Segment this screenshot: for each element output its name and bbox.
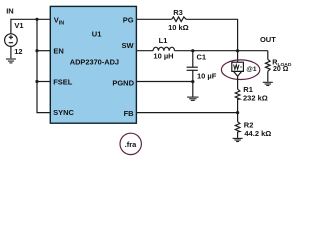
svg-text:SW: SW xyxy=(122,41,135,50)
wire: FSEL pin stub xyxy=(37,81,50,83)
node: bus-FSEL junction xyxy=(35,80,38,83)
svg-text:FB: FB xyxy=(124,109,135,118)
resistor R3 zigzag xyxy=(172,17,187,22)
capacitor C1 (10 uF) top lead xyxy=(192,51,194,67)
wire: RLOAD to ground xyxy=(267,71,269,81)
svg-text:@1: @1 xyxy=(246,66,256,73)
svg-text:20 Ω: 20 Ω xyxy=(273,66,289,73)
svg-text:44.2 kΩ: 44.2 kΩ xyxy=(244,129,271,138)
wire: R2 to ground xyxy=(237,132,239,138)
svg-text:EN: EN xyxy=(53,47,63,56)
svg-text:R2: R2 xyxy=(244,120,254,129)
resistor RLOAD (20 Ohm) zigzag xyxy=(266,59,271,71)
wire: R3 to OUT node xyxy=(186,19,238,50)
node: OUT junction xyxy=(236,49,239,52)
ground: under C1 xyxy=(187,97,198,100)
ground: under R2 xyxy=(233,138,243,141)
svg-text:L1: L1 xyxy=(159,36,168,45)
wire: FB pin to junction xyxy=(136,112,237,114)
wire: OUT node down to probe xyxy=(237,51,239,63)
svg-text:PG: PG xyxy=(123,15,134,24)
svg-text:10 µH: 10 µH xyxy=(153,52,173,61)
capacitor C1 plates xyxy=(187,66,198,68)
probe .fra red circle xyxy=(120,133,141,154)
svg-text:SYNC: SYNC xyxy=(53,108,74,117)
resistor R1 (232 kOhm) zigzag xyxy=(235,89,240,112)
node: PGND-C1 junction xyxy=(191,80,194,83)
wire: V1 top to VIN pin xyxy=(11,19,50,33)
wire: probe to R1 xyxy=(237,76,239,89)
probe @1 red ellipse xyxy=(221,60,259,80)
svg-text:ADP2370-ADJ: ADP2370-ADJ xyxy=(70,57,119,66)
ground: under V1 xyxy=(6,59,16,63)
probe @1 body xyxy=(232,62,244,76)
svg-text:232 kΩ: 232 kΩ xyxy=(243,93,268,102)
ground: under RLOAD xyxy=(263,82,273,85)
resistor R2 zigzag xyxy=(235,122,240,132)
IC U1 ADP2370-ADJ body xyxy=(50,6,136,123)
svg-text:10 kΩ: 10 kΩ xyxy=(168,23,189,32)
wire: V1 bottom to ground xyxy=(10,46,12,58)
voltage source V1 xyxy=(5,34,18,47)
svg-text:U1: U1 xyxy=(92,29,102,38)
wire: OUT to RLOAD xyxy=(267,51,269,60)
capacitor C1 bottom lead xyxy=(192,70,194,97)
node: FB junction xyxy=(236,111,239,114)
wire: left bus VIN-EN-FSEL-SYNC xyxy=(37,19,50,112)
wire: L1 to OUT corner xyxy=(175,50,268,52)
wire: PGND to C1 xyxy=(136,81,192,83)
svg-text:V1: V1 xyxy=(14,21,23,30)
probe @1 waveform glyph xyxy=(234,65,239,70)
resistor R3 (10 kOhm) wire from PG xyxy=(136,18,171,20)
svg-text:R3: R3 xyxy=(173,8,183,17)
svg-text:10 µF: 10 µF xyxy=(197,71,217,80)
inductor L1 wire from SW xyxy=(136,50,153,52)
svg-text:12: 12 xyxy=(14,47,22,56)
svg-text:IN: IN xyxy=(6,6,14,15)
svg-text:.fra: .fra xyxy=(125,140,138,149)
svg-text:FSEL: FSEL xyxy=(53,77,73,86)
svg-text:C1: C1 xyxy=(197,53,207,62)
svg-text:PGND: PGND xyxy=(112,78,134,87)
node: bus-EN junction xyxy=(35,49,38,52)
node: bus-VIN junction xyxy=(35,18,38,21)
svg-text:OUT: OUT xyxy=(260,35,276,44)
inductor L1 humps xyxy=(153,47,174,51)
node: C1 top junction xyxy=(191,49,194,52)
wire: EN pin stub xyxy=(37,50,50,52)
resistor R2 (44.2 kOhm) lead xyxy=(237,113,239,122)
